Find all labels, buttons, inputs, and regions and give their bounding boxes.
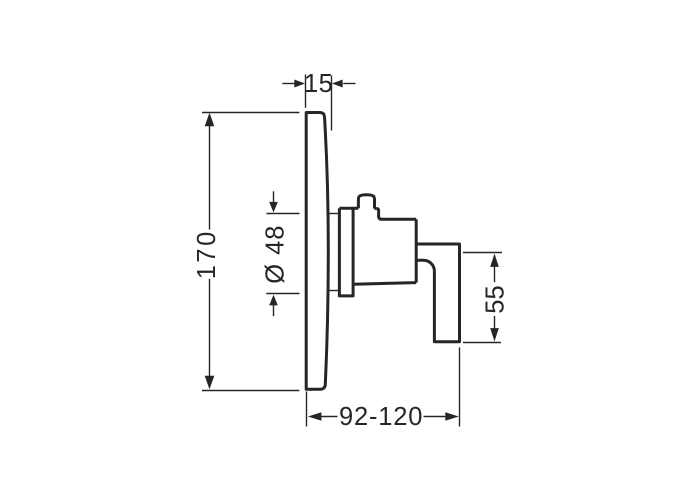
dim d48 arrow bottom [273, 305, 275, 316]
escutcheon wall plate (side view) [306, 113, 328, 390]
dim 55 extension line bottom [463, 342, 501, 344]
dim 170 extension line bottom [202, 390, 299, 392]
svg-text:55: 55 [482, 285, 510, 313]
dim d48 extension line bottom [266, 293, 299, 295]
dim 15 arrow right [343, 83, 355, 85]
body bottom edge [353, 283, 416, 285]
dim 92-120 extension line right [459, 347, 461, 426]
connection top line plate-to-sleeve [328, 213, 339, 215]
svg-text:170: 170 [193, 229, 221, 279]
dim 15 extension line left [305, 75, 307, 108]
body top edge left [339, 207, 376, 210]
dim 92-120 extension line left [306, 392, 308, 427]
svg-text:92-120: 92-120 [339, 403, 423, 431]
dim d48 arrow top [273, 191, 275, 202]
dim 170 line with arrowheads [209, 126, 211, 377]
dim 55 line with arrowheads [494, 266, 496, 328]
dim 15 extension line right [331, 76, 333, 131]
dim 55 extension line top [463, 252, 502, 254]
handle lever [416, 244, 459, 342]
dim 92-120 line with arrowheads [320, 416, 447, 418]
sleeve ring [339, 208, 353, 296]
body step and lower top edge [377, 209, 416, 220]
body right edge [415, 219, 418, 282]
svg-text:Ø 48: Ø 48 [262, 225, 290, 284]
dim d48 extension line top [267, 213, 300, 215]
svg-text:15: 15 [304, 70, 333, 98]
connection bottom line plate-to-sleeve [328, 290, 339, 292]
dim 15 arrow left [282, 83, 295, 85]
temperature stop knob [358, 195, 374, 209]
dim 170 extension line top [202, 112, 299, 114]
